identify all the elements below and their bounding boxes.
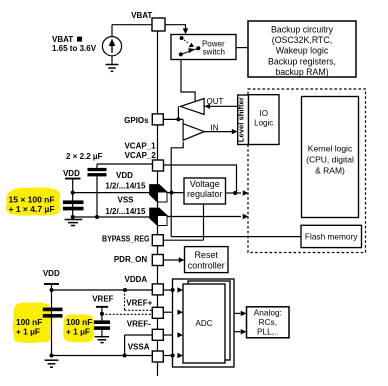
svg-text:Level shifter: Level shifter — [236, 97, 245, 142]
svg-text:VSS: VSS — [117, 196, 134, 205]
svg-text:PDR_ON: PDR_ON — [114, 255, 148, 264]
svg-text:OUT: OUT — [207, 97, 224, 106]
svg-text:Backup registers,: Backup registers, — [268, 56, 336, 66]
svg-text:+ 1 µF: + 1 µF — [66, 326, 90, 336]
svg-text:+ 1 µF: + 1 µF — [16, 326, 40, 336]
svg-text:regulator: regulator — [187, 189, 223, 199]
svg-text:1.65 to 3.6V: 1.65 to 3.6V — [52, 44, 97, 53]
svg-text:IN: IN — [211, 123, 219, 132]
svg-text:VREF-: VREF- — [127, 320, 151, 329]
svg-text:RCs,: RCs, — [259, 317, 277, 327]
svg-text:VDD: VDD — [116, 171, 133, 180]
svg-text:1/2/...14/15: 1/2/...14/15 — [105, 207, 146, 216]
svg-text:backup RAM): backup RAM) — [275, 67, 328, 77]
svg-text:VBAT: VBAT — [131, 11, 152, 20]
svg-text:controller: controller — [188, 260, 225, 270]
svg-text:VBAT: VBAT — [52, 35, 73, 44]
svg-text:(OSC32K,RTC,: (OSC32K,RTC, — [272, 35, 332, 45]
svg-text:2 × 2.2 µF: 2 × 2.2 µF — [66, 152, 103, 161]
svg-text:VDD: VDD — [63, 169, 80, 178]
svg-text:VCAP_1: VCAP_1 — [124, 141, 156, 150]
svg-text:Backup circuitry: Backup circuitry — [271, 25, 334, 35]
svg-text:switch: switch — [203, 48, 225, 57]
svg-text:(CPU, digital: (CPU, digital — [306, 155, 354, 165]
svg-text:PLL,..: PLL,.. — [257, 327, 279, 337]
svg-text:BYPASS_REG: BYPASS_REG — [102, 235, 150, 244]
svg-text:VREF: VREF — [92, 294, 113, 303]
svg-text:Logic: Logic — [254, 119, 273, 128]
svg-text:Kernel logic: Kernel logic — [308, 144, 353, 154]
svg-text:VREF+: VREF+ — [126, 298, 152, 307]
svg-text:Reset: Reset — [194, 250, 218, 260]
svg-text:Voltage: Voltage — [190, 179, 220, 189]
svg-text:+ 1 × 4.7 µF: + 1 × 4.7 µF — [9, 204, 55, 214]
svg-text:1/2/...14/15: 1/2/...14/15 — [105, 182, 146, 191]
svg-text:VDDA: VDDA — [125, 275, 148, 284]
svg-text:IO: IO — [259, 109, 267, 118]
svg-text:15 × 100 nF: 15 × 100 nF — [9, 195, 55, 205]
svg-text:ADC: ADC — [196, 319, 213, 328]
svg-text:Wakeup logic: Wakeup logic — [276, 46, 329, 56]
svg-text:VCAP_2: VCAP_2 — [125, 151, 157, 160]
svg-text:& RAM): & RAM) — [315, 166, 345, 176]
svg-text:GPIOs: GPIOs — [124, 116, 149, 125]
svg-text:VSSA: VSSA — [128, 342, 150, 351]
svg-text:Flash memory: Flash memory — [305, 232, 358, 242]
svg-text:VDD: VDD — [43, 269, 60, 278]
